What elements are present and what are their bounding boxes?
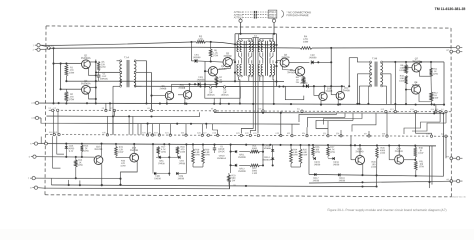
wire (bus B1) [39, 102, 444, 106]
top connector rows [243, 11, 268, 19]
diode CR12 [235, 164, 247, 173]
svg-text:E18: E18 [49, 132, 52, 134]
wire [52, 111, 54, 134]
resistor R22 [250, 164, 260, 175]
wire [156, 172, 169, 174]
node (border top right) [446, 49, 452, 53]
svg-text:E21: E21 [142, 132, 145, 134]
transistor Q10 [319, 88, 333, 100]
wire (Q7 collector) [419, 62, 421, 64]
svg-text:200VDC: 200VDC [100, 78, 109, 80]
transistor Q8 [411, 82, 420, 94]
wire [416, 112, 432, 135]
wire (bottom rail 1) [51, 184, 376, 188]
resistor R7 [215, 77, 223, 85]
wire (Q4 collector) [277, 60, 281, 62]
resistor R13 [81, 145, 90, 157]
wire [168, 144, 170, 176]
svg-text:A2TB1-3: A2TB1-3 [234, 16, 244, 19]
wire (Q7 base) [405, 66, 412, 68]
wire [193, 163, 203, 167]
wire [95, 71, 120, 73]
wire [394, 62, 396, 112]
wire [145, 61, 147, 105]
svg-text:E37: E37 [364, 133, 367, 135]
wire [327, 121, 329, 136]
wire (Q9 emitter) [166, 99, 168, 104]
svg-text:VR66B: VR66B [264, 148, 271, 150]
wire (Q15 collector) [133, 144, 135, 153]
transistor Q16 [355, 149, 364, 165]
wire [117, 60, 120, 62]
svg-text:TM 11-6130-381-35: TM 11-6130-381-35 [435, 7, 466, 11]
wire (Q12 collector) [341, 86, 343, 91]
resistor R5 [209, 42, 219, 61]
terminal right 4 [457, 179, 463, 182]
svg-text:E36: E36 [336, 133, 339, 135]
wire (Q10 base) [313, 85, 319, 95]
svg-text:1N4009: 1N4009 [238, 171, 246, 173]
wire (jog J4) [404, 122, 440, 134]
wire (Q9 collector) [171, 84, 173, 91]
wire (rung1) [231, 151, 263, 153]
svg-text:E7: E7 [110, 108, 112, 110]
svg-text:E32: E32 [276, 133, 279, 135]
svg-text:E17: E17 [441, 109, 444, 111]
wire [161, 156, 176, 158]
wire [453, 180, 457, 182]
svg-text:E16: E16 [435, 109, 438, 111]
wire [50, 179, 52, 185]
svg-text:2N456A: 2N456A [219, 68, 228, 71]
wire (lower rail L2) [49, 47, 300, 48]
resistor R11 [430, 62, 439, 76]
svg-text:E25: E25 [181, 133, 184, 135]
wire (bus B8) [46, 143, 436, 147]
wire (center top) [235, 33, 277, 35]
wire (center tap 3) [257, 38, 259, 134]
svg-text:1/2W: 1/2W [69, 72, 75, 74]
wire [151, 124, 153, 135]
svg-text:2N1039: 2N1039 [281, 57, 290, 59]
wire (right rail of T2) [275, 34, 277, 87]
transistor Q12 [336, 88, 350, 100]
wire [291, 164, 301, 168]
svg-text:A2TB1-1: A2TB1-1 [234, 11, 244, 14]
wire [383, 61, 445, 63]
wire [386, 112, 388, 136]
transformer T2-A [237, 38, 254, 77]
svg-text:1N538: 1N538 [179, 163, 186, 165]
resistor R4 [300, 36, 312, 49]
wire [351, 136, 355, 160]
wire [128, 116, 130, 135]
resistor R20 [202, 144, 211, 163]
svg-text:2N408: 2N408 [178, 88, 185, 90]
terminal J1-A [33, 44, 41, 48]
resistor R14 [74, 157, 83, 167]
svg-text:E11: E11 [297, 109, 300, 111]
svg-text:E14: E14 [410, 109, 413, 111]
svg-text:E28: E28 [213, 133, 216, 135]
wire [435, 105, 437, 112]
label CR10 [217, 155, 227, 160]
wire [132, 116, 134, 134]
svg-text:1N2861A: 1N2861A [262, 159, 272, 162]
wire [53, 136, 61, 168]
svg-text:A2TB2-1: A2TB2-1 [267, 11, 277, 14]
transistor Q13 [94, 146, 103, 164]
svg-text:2N2063A: 2N2063A [81, 82, 91, 85]
diode CR7 [175, 154, 185, 165]
wire (CR17 line) [309, 174, 444, 177]
svg-text:1N2861A: 1N2861A [217, 157, 227, 160]
wire (Q2 emitter) [89, 93, 96, 99]
drawing number note [450, 197, 466, 199]
terminal J6 [28, 177, 35, 181]
wire [230, 145, 232, 173]
terminal right 1 [456, 46, 462, 49]
svg-text:E35: E35 [323, 133, 326, 135]
wire [356, 74, 369, 105]
wire (left rail of T2) [234, 34, 236, 83]
svg-text:1N538: 1N538 [333, 164, 340, 166]
wire [109, 103, 111, 110]
wire [213, 98, 221, 105]
terminal right 2 [456, 50, 462, 53]
diode CR4 [300, 80, 309, 88]
node A (border junction) [47, 46, 54, 50]
wire (E22 down) [273, 22, 275, 34]
svg-text:E39: E39 [426, 134, 429, 136]
svg-text:E5: E5 [54, 108, 56, 110]
diode CR2 [309, 55, 317, 64]
transistor Q6 [287, 67, 304, 76]
wire [140, 124, 142, 135]
wire [340, 130, 342, 136]
wire (rail 81) [66, 80, 284, 82]
svg-text:E33: E33 [287, 133, 290, 135]
wire (center tap 2) [250, 38, 255, 134]
wire (Q7 emitter) [420, 71, 432, 76]
transformer T1-B [370, 61, 383, 87]
resistor R31 [414, 160, 424, 176]
diode CR13 [264, 145, 274, 151]
wire (Q10 emitter) [320, 100, 322, 105]
svg-text:2N1049: 2N1049 [412, 85, 421, 87]
label C2 [207, 90, 216, 97]
wire [113, 86, 120, 135]
wire [280, 113, 282, 136]
resistor R25 [299, 145, 308, 164]
wire (jog J5) [412, 123, 446, 131]
wire (Q14 collector) [398, 146, 400, 155]
wire (Q11 base) [178, 94, 184, 96]
diode CR6 [156, 154, 165, 165]
svg-text:1/2W: 1/2W [198, 41, 204, 43]
wire [262, 145, 264, 167]
wire [262, 77, 264, 113]
wire (Q3 emitter to Q5 base) [218, 66, 231, 69]
wire (Q3 collector) [232, 60, 235, 62]
svg-text:E13: E13 [390, 109, 393, 111]
resistor R5A [97, 61, 106, 70]
wire [136, 60, 146, 62]
wire (Q2 collector) [90, 86, 96, 88]
resistor R3 [196, 36, 206, 43]
svg-text:E10: E10 [258, 108, 261, 110]
wire [38, 137, 48, 145]
board border (dashed) [45, 26, 451, 197]
wire [308, 145, 310, 174]
diode CR1 [193, 55, 201, 63]
terminal E21 [239, 18, 242, 22]
top connector right labels [267, 11, 277, 19]
transistor Q15 [130, 147, 139, 162]
wire [445, 136, 447, 158]
wire (bus B5) [41, 118, 300, 125]
wire (Q8 emitter) [419, 94, 431, 102]
terminal J1-B [33, 48, 41, 52]
wire (Q11 collector) [188, 83, 190, 91]
wire [453, 157, 457, 159]
wire [65, 101, 67, 104]
diode CR5 [65, 144, 75, 157]
resistor R30 [414, 146, 424, 160]
transistor Q7 [412, 58, 421, 72]
wire [57, 136, 64, 154]
svg-text:E24: E24 [165, 132, 168, 134]
svg-text:2N456A: 2N456A [287, 71, 296, 74]
wire [116, 156, 130, 158]
svg-text:1/2W: 1/2W [303, 42, 309, 44]
terminal J5 [29, 155, 36, 159]
wire [302, 84, 304, 88]
wire [105, 103, 107, 110]
wire [112, 116, 114, 134]
svg-text:E19: E19 [54, 132, 57, 134]
resistor R15 [115, 144, 125, 156]
wire (Q8 base) [405, 89, 411, 91]
wire [39, 117, 41, 119]
svg-text:E4: E4 [49, 108, 51, 110]
wire (Q4 emitter to Q6 base) [282, 67, 295, 71]
wire [348, 58, 350, 88]
wire (Q4 base) [289, 61, 309, 63]
node E3 [223, 86, 225, 88]
wire [169, 124, 171, 135]
wire [191, 42, 194, 61]
transformer T1-A [120, 60, 136, 87]
wire (bus B4) [46, 112, 199, 117]
svg-text:T1-B: T1-B [372, 57, 378, 60]
wire [185, 124, 187, 135]
wire (rung2) [231, 164, 263, 166]
wire [68, 180, 70, 185]
wire [79, 180, 81, 185]
svg-text:E8: E8 [147, 108, 149, 110]
wire [106, 116, 108, 134]
wire (T2-A bottom) [239, 77, 241, 105]
wire [113, 111, 115, 117]
title TM number [435, 7, 466, 11]
transistor Q14 [395, 148, 404, 164]
wire (Q1 emitter) [89, 68, 96, 76]
wire [445, 112, 447, 123]
wire [443, 62, 445, 106]
node (border mid right) [446, 155, 452, 159]
wire [383, 74, 392, 104]
svg-text:150VDC: 150VDC [207, 95, 216, 97]
resistor R19 [192, 144, 201, 163]
wire [136, 85, 141, 87]
label R29 [371, 162, 377, 169]
label T2 [254, 35, 257, 38]
wire (bus B3) [214, 112, 445, 115]
wire [75, 167, 77, 179]
wire [306, 127, 308, 135]
svg-text:E26: E26 [197, 133, 200, 135]
wire (Q16 collector) [359, 145, 361, 155]
diode CR15 [313, 156, 321, 166]
capacitor C1 [97, 71, 109, 81]
wire [442, 113, 444, 176]
diode CR8 [153, 171, 162, 180]
wire (collector rail y84) [172, 83, 218, 85]
svg-text:1N2858: 1N2858 [309, 57, 317, 59]
wire [439, 112, 441, 122]
wire (Q1 base) [54, 62, 82, 64]
wire [291, 124, 293, 136]
resistor R8 [296, 77, 305, 84]
svg-text:1N2858: 1N2858 [300, 83, 308, 85]
wire [205, 124, 207, 129]
resistor R26 [312, 145, 321, 156]
wire (Q11 emitter) [184, 98, 186, 104]
diode CR9 [176, 171, 186, 180]
svg-text:T1-A: T1-A [124, 56, 130, 59]
svg-text:1N4009: 1N4009 [238, 157, 246, 159]
wire (Q6 loop) [285, 86, 304, 100]
wire (base line) [36, 156, 94, 158]
wire [204, 84, 206, 86]
terminal J3 [31, 116, 38, 120]
node E2 [209, 86, 211, 88]
top connector right box [268, 10, 277, 18]
svg-text:1N538: 1N538 [339, 180, 346, 182]
wire (upper rail L1) [40, 42, 196, 46]
wire (Q6 emitter) [302, 76, 304, 77]
svg-text:1N538: 1N538 [158, 163, 165, 165]
svg-text:150VDC: 150VDC [221, 95, 230, 97]
wire [349, 58, 369, 62]
svg-text:E34: E34 [302, 133, 305, 135]
svg-text:FOR EACH PHASE: FOR EACH PHASE [287, 14, 309, 17]
label 7R [233, 185, 236, 187]
wire (T2-B bottom) [273, 77, 275, 105]
svg-text:E9: E9 [211, 108, 213, 110]
capacitor C5 [213, 144, 226, 154]
resistor R17 [157, 146, 167, 154]
transistor Q5 [208, 66, 227, 76]
wire (Q1 collector) [90, 61, 96, 63]
terminal J2 [31, 101, 38, 105]
wire (jog J3) [316, 113, 353, 128]
diode CR16 [328, 156, 340, 166]
terminal right 3 [457, 157, 463, 160]
wire (T2 tap bar) [252, 37, 259, 39]
top connector left labels [234, 11, 244, 19]
wire [158, 124, 160, 135]
wire (bottom rail 2) [44, 182, 230, 188]
wire [201, 124, 203, 135]
diode CR11 [235, 150, 247, 159]
wire [98, 77, 100, 81]
wire (rail 86) [135, 85, 345, 87]
wire (jog J7) [352, 113, 376, 131]
bus B7 (connector row) [46, 132, 451, 137]
wire [430, 76, 432, 92]
resistor R28 [376, 145, 386, 158]
wire [312, 47, 451, 49]
wire [383, 86, 387, 104]
wire [137, 124, 139, 135]
node (border low right) [446, 178, 452, 182]
figure caption [327, 208, 446, 212]
transistor Q11 [178, 85, 191, 99]
svg-text:E31: E31 [253, 133, 256, 135]
wire (Q13 collector) [100, 143, 102, 156]
wire (Q5 emitter) [215, 76, 217, 77]
wire (Q13 emitter) [101, 164, 103, 186]
svg-text:E30: E30 [245, 133, 248, 135]
wire [249, 77, 260, 82]
wire (jog J2) [307, 113, 345, 127]
wire [65, 76, 67, 82]
wire (E21 down) [240, 22, 242, 34]
wire [239, 34, 273, 39]
wire [95, 60, 97, 105]
diode CR17 [313, 173, 320, 182]
wire [314, 48, 333, 86]
wire [185, 144, 187, 171]
transistor Q2 [81, 81, 91, 94]
wire [147, 124, 149, 135]
svg-text:2N1039: 2N1039 [223, 56, 232, 58]
resistor R24 [290, 145, 299, 164]
svg-text:Figure 29-1. Power supply mod: Figure 29-1. Power supply module and inv… [327, 208, 446, 212]
brace [281, 11, 283, 18]
wire (Q2 base) [61, 88, 82, 90]
wire [451, 47, 456, 51]
wire [38, 187, 44, 190]
diode CR14 [262, 151, 274, 166]
wire [358, 86, 369, 105]
terminal J4 [30, 142, 37, 146]
wire [228, 182, 231, 188]
terminal J7 [30, 186, 37, 190]
wire (Q10 collector) [324, 86, 326, 92]
label T1-B [372, 57, 378, 60]
svg-text:E27: E27 [203, 133, 206, 135]
label C3 [221, 90, 230, 97]
svg-text:A2TB2-2: A2TB2-2 [267, 14, 277, 17]
svg-text:1N538: 1N538 [314, 164, 321, 166]
svg-text:1N2858: 1N2858 [193, 57, 201, 59]
resistor R23 [228, 173, 237, 182]
wire (Q9 base) [152, 95, 166, 97]
wire [152, 144, 154, 171]
